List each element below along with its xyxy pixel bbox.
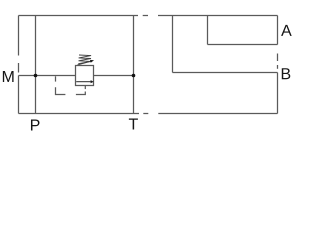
wire T line vertical: [133, 16, 135, 114]
wire left border upper: [18, 16, 20, 56]
pilot drain dashed line: [56, 76, 86, 94]
wire B channel horizontal: [173, 72, 278, 74]
relief valve U1 body: [76, 66, 94, 86]
wire bottom border left block: [19, 113, 140, 115]
wire A-B dashed connector dash 2: [277, 65, 279, 69]
port label M: [3, 71, 14, 82]
wire left border lower: [18, 76, 20, 114]
wire M line left segment: [19, 75, 76, 77]
pilot dash from M line: [55, 76, 57, 81]
port label B: [282, 68, 291, 79]
relief valve spring: [78, 55, 91, 64]
relief valve flow arrow: [76, 80, 94, 83]
wire P line vertical: [35, 16, 37, 114]
wire bottom border right block: [158, 113, 277, 115]
wire bottom border bridge dash: [143, 113, 148, 115]
wire left border dash: [18, 63, 20, 73]
wire top border bridge dash: [143, 15, 148, 17]
wire A channel riser: [207, 16, 209, 45]
wire B channel riser: [172, 16, 174, 73]
node junction dot T-M: [132, 74, 136, 78]
pilot corner dash lower left: [56, 87, 66, 94]
port label T: [129, 118, 138, 129]
wire M line right segment: [94, 75, 134, 77]
wire A channel right edge: [277, 16, 279, 45]
port label A: [281, 25, 292, 36]
wire top border left block: [19, 15, 139, 17]
wire top border right block: [158, 15, 278, 17]
wire A channel bottom: [208, 44, 278, 46]
relief valve adjustment arrow: [77, 60, 94, 65]
wire B channel right edge: [277, 73, 279, 114]
pilot corner dash lower right: [76, 92, 85, 95]
node junction dot P-M: [34, 74, 38, 78]
port label P: [31, 119, 40, 130]
pilot stub below valve: [84, 86, 86, 90]
wire A-B dashed connector dash 1: [277, 54, 279, 62]
